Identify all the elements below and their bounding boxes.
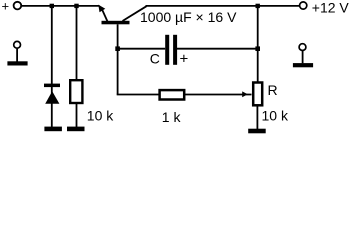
node junction base/cap [115,46,120,51]
wire 1k to wiper [185,94,252,96]
node junction rail/zener [50,4,54,8]
ground bar (zener) [44,127,62,132]
node junction rail/pot [256,4,260,8]
transistor Q1 [98,5,146,25]
svg-text:+: + [2,0,10,13]
diode D1 [44,84,60,104]
chassis terminal left [7,41,27,65]
capacitor C [165,35,177,65]
wire pot bottom [256,106,258,129]
terminal +12V output [300,2,307,9]
wire 10k drop [76,6,78,80]
svg-text:10 k: 10 k [87,108,114,124]
chassis terminal right [293,44,313,68]
svg-text:+12 V: +12 V [312,0,350,16]
terminal input [14,2,22,10]
ground bar (10k) [67,127,85,132]
resistor 1k [160,90,185,99]
svg-text:1000 µF × 16 V: 1000 µF × 16 V [140,9,237,25]
node junction cap/pot [255,46,260,51]
wire base lead [117,24,119,94]
wire top-left rail [22,5,100,7]
wire base to 1k [117,94,159,96]
wire pot top [257,6,259,82]
svg-text:1 k: 1 k [162,109,182,125]
wiper arrow [242,91,248,97]
wire zener drop [51,6,53,127]
wire cap left [118,48,166,50]
resistor 10k (left) [70,80,82,127]
wire top-right rail [146,5,300,7]
ground bar (pot) [248,129,266,134]
wire cap right [177,48,258,50]
svg-text:+: + [180,50,189,67]
node junction rail/10k [74,4,78,8]
svg-text:R: R [268,82,278,98]
potentiometer R [253,83,262,106]
svg-text:C: C [150,51,160,67]
svg-text:10 k: 10 k [262,107,289,123]
